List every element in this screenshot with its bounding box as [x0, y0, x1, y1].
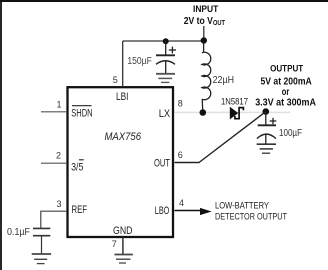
- node output junction dot: [263, 108, 270, 115]
- svg-text:LOW-BATTERY: LOW-BATTERY: [215, 200, 270, 211]
- wire pin4 LBO with arrow: [175, 210, 203, 212]
- svg-text:3: 3: [57, 199, 62, 209]
- svg-text:SHDN: SHDN: [71, 108, 92, 120]
- svg-text:8: 8: [178, 98, 183, 108]
- overline for 5 in 3/5: [79, 159, 84, 161]
- wire pin5 LBI vertical: [122, 41, 124, 87]
- svg-text:DETECTOR OUTPUT: DETECTOR OUTPUT: [215, 211, 287, 222]
- wire pin1 SHDN stub: [41, 111, 67, 113]
- svg-text:OUT: OUT: [213, 20, 226, 27]
- node junction dot inductor bottom / LX: [200, 109, 207, 116]
- node INPUT label: [184, 4, 226, 27]
- page frame top border: [0, 0, 328, 2]
- wire LX output rail (light): [175, 111, 291, 113]
- wire input stub down from INPUT label: [203, 26, 205, 41]
- svg-text:100µF: 100µF: [279, 128, 302, 139]
- wire pin3 REF: [41, 211, 67, 228]
- ground below C1: [156, 74, 175, 83]
- svg-text:LBO: LBO: [155, 205, 170, 217]
- svg-text:LBI: LBI: [116, 91, 129, 103]
- diode D1 1N5817: [230, 107, 244, 120]
- pin number labels: [56, 75, 184, 249]
- svg-text:3.3V at 300mA: 3.3V at 300mA: [255, 98, 316, 109]
- svg-text:0.1µF: 0.1µF: [7, 227, 30, 238]
- svg-text:22µH: 22µH: [213, 75, 234, 86]
- svg-text:2: 2: [56, 150, 61, 160]
- wire pin6 OUT horizontal: [175, 162, 200, 164]
- svg-text:OUT: OUT: [154, 158, 170, 170]
- node junction dot at 150uF top: [163, 38, 169, 44]
- svg-text:INPUT: INPUT: [193, 4, 219, 14]
- svg-text:or: or: [282, 87, 290, 98]
- ground below C2: [257, 144, 276, 153]
- pin name labels inside IC: [71, 91, 171, 237]
- ground below C3: [32, 254, 51, 264]
- op-amp U1 MAX756 IC box: [68, 87, 174, 237]
- page frame left border: [0, 0, 2, 270]
- svg-text:6: 6: [178, 150, 183, 160]
- capacitor C2 100uF: [257, 112, 276, 144]
- svg-text:1N5817: 1N5817: [221, 97, 248, 108]
- svg-text:LX: LX: [159, 108, 171, 120]
- inductor L1 22uH: [202, 41, 211, 112]
- svg-text:150µF: 150µF: [127, 56, 151, 67]
- ground below GND pin: [115, 255, 133, 264]
- svg-text:5V at 200mA: 5V at 200mA: [261, 76, 312, 87]
- overline for SHDN: [72, 105, 92, 107]
- svg-text:7: 7: [112, 239, 117, 249]
- wire top horizontal from LBI to input node: [123, 40, 204, 42]
- arrow head LBO: [200, 208, 212, 215]
- node junction dot at input/inductor top: [201, 37, 207, 43]
- label LOW-BATTERY DETECTOR OUTPUT: [215, 200, 287, 222]
- svg-text:4: 4: [179, 198, 184, 208]
- capacitor C3 0.1uF: [33, 228, 50, 253]
- wire pin2 3/5 stub: [41, 162, 67, 164]
- capacitor C1 150uF: [156, 41, 176, 74]
- wire pin7 GND: [122, 238, 124, 255]
- svg-text:5: 5: [113, 75, 118, 85]
- svg-text:REF: REF: [72, 204, 88, 216]
- node OUTPUT label: [255, 64, 316, 109]
- svg-text:1: 1: [57, 99, 62, 109]
- wire diagonal from OUT to output node: [199, 112, 266, 163]
- svg-text:GND: GND: [113, 225, 133, 237]
- svg-text:OUTPUT: OUTPUT: [270, 64, 304, 74]
- svg-text:3/5: 3/5: [71, 161, 83, 173]
- svg-text:2V to V: 2V to V: [184, 16, 213, 27]
- svg-text:MAX756: MAX756: [105, 131, 142, 143]
